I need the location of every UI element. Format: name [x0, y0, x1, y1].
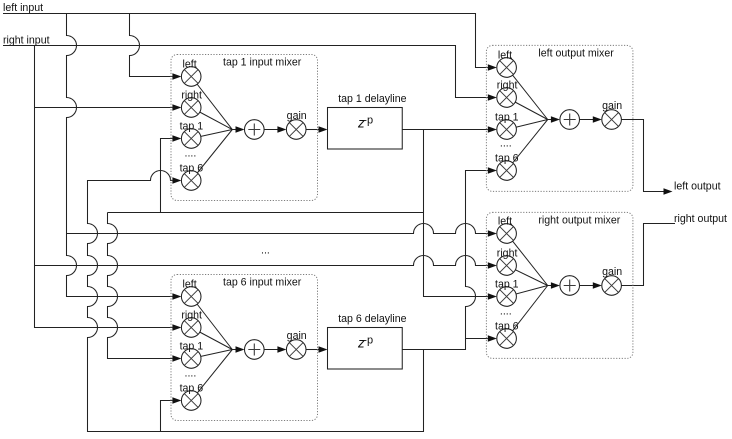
multiplier left (tap 1 input mixer): [181, 67, 201, 87]
arrowhead into gain left output mixer: [593, 116, 602, 123]
multiplier right (left output mixer): [497, 88, 517, 108]
arrowhead into adder left output mixer: [551, 116, 560, 123]
svg-text:....: ....: [500, 137, 512, 149]
wire right output wire: [621, 224, 675, 286]
multiplier tap 6 (tap 6 input mixer): [181, 391, 201, 411]
mixer box tap 1 input mixer: [171, 55, 318, 201]
adder sum (right output mixer): [560, 276, 580, 296]
svg-text:gain: gain: [602, 266, 622, 278]
arrowhead into right (tap 1 input mixer): [172, 104, 181, 111]
svg-text:tap 6 delayline: tap 6 delayline: [338, 313, 406, 325]
svg-text:....: ....: [185, 147, 197, 159]
multiplier gain (left output mixer): [602, 110, 622, 130]
wire tap 6 feedback to tap 6 input mixer: [161, 401, 173, 432]
svg-text:tap 1: tap 1: [180, 121, 204, 133]
svg-text:tap 1: tap 1: [180, 341, 204, 353]
svg-text:right output mixer: right output mixer: [538, 215, 620, 227]
svg-text:left output: left output: [674, 181, 721, 193]
svg-text:tap 6: tap 6: [495, 321, 519, 333]
svg-text:tap 1: tap 1: [495, 112, 519, 124]
wire tap 1 delayline output: [402, 129, 488, 131]
delayline box tap 6 delayline: [328, 328, 403, 370]
svg-text:right: right: [181, 90, 202, 102]
multiplier gain (tap 1 input mixer): [286, 120, 306, 140]
svg-text:left: left: [498, 216, 512, 228]
multiplier tap 1 (tap 6 input mixer): [181, 349, 201, 369]
arrowhead into tap 6 (left output mixer): [488, 167, 497, 174]
arrowhead into left (tap 1 input mixer): [172, 73, 181, 80]
arrowhead into tap 6 (right output mixer): [488, 335, 497, 342]
svg-text:-p: -p: [363, 115, 373, 127]
multiplier tap 6 (left output mixer): [497, 161, 517, 181]
arrowhead into left (right output mixer): [488, 230, 497, 237]
multiplier tap 1 (right output mixer): [497, 287, 517, 307]
arrowhead into left (tap 6 input mixer): [172, 293, 181, 300]
wire fan-in to adder of left output mixer: [507, 68, 594, 171]
svg-text:gain: gain: [287, 330, 307, 342]
svg-text:....: ....: [500, 305, 512, 317]
svg-text:tap 1 delayline: tap 1 delayline: [338, 93, 406, 105]
adder sum (left output mixer): [560, 110, 580, 130]
arrowhead left output: [664, 188, 673, 195]
wire right input to right output mixer: [35, 256, 488, 266]
mixer box tap 6 input mixer: [171, 275, 318, 421]
svg-text:tap 1 input mixer: tap 1 input mixer: [223, 57, 302, 69]
wire tap 6 mixer to delayline: [306, 349, 319, 351]
multiplier tap 1 (left output mixer): [497, 120, 517, 140]
wire tap 1 feedback bus: [108, 212, 424, 214]
arrowhead into tap 6 (tap 1 input mixer): [172, 177, 181, 184]
multiplier tap 1 (tap 1 input mixer): [181, 129, 201, 149]
wire tap 6 delay to right output mixer: [466, 338, 488, 340]
wire tap 1 delay to right output mixer: [424, 130, 488, 297]
wire fan-in to adder of tap 6 input mixer: [191, 297, 278, 401]
multiplier right (right output mixer): [497, 256, 517, 276]
wire right input trunk: [35, 46, 173, 328]
mixer box left output mixer: [486, 45, 633, 191]
arrowhead into adder tap 6 input mixer: [236, 346, 245, 353]
mixer box right output mixer: [486, 212, 633, 358]
delayline box tap 1 delayline: [328, 108, 403, 150]
svg-text:tap 6: tap 6: [180, 163, 204, 175]
multiplier left (tap 6 input mixer): [181, 287, 201, 307]
svg-text:....: ....: [185, 367, 197, 379]
svg-text:gain: gain: [602, 100, 622, 112]
arrowhead into tap 1 (left output mixer): [488, 126, 497, 133]
svg-text:right: right: [181, 310, 202, 322]
arrowhead into right (right output mixer): [488, 262, 497, 269]
wire left input to tap 1 input mixer: [130, 14, 173, 77]
arrowhead into gain tap 6 input mixer: [277, 346, 286, 353]
svg-text:gain: gain: [287, 110, 307, 122]
svg-text:left: left: [183, 59, 197, 71]
adder sum (tap 1 input mixer): [245, 120, 265, 140]
wire left input to right output mixer: [67, 224, 488, 234]
arrowhead into tap 6 (tap 6 input mixer): [172, 397, 181, 404]
multiplier right (tap 6 input mixer): [181, 318, 201, 338]
svg-text:left: left: [498, 50, 512, 62]
arrowhead into adder right output mixer: [551, 282, 560, 289]
svg-text:tap 1: tap 1: [495, 279, 519, 291]
arrowhead into gain tap 1 input mixer: [277, 126, 286, 133]
svg-text:left: left: [183, 279, 197, 291]
arrowhead into tap 1 (tap 6 input mixer): [172, 355, 181, 362]
wire left input to tap 6 input mixer: [67, 14, 173, 297]
multiplier left (right output mixer): [497, 224, 517, 244]
svg-text:right: right: [497, 80, 518, 92]
arrowhead into right (left output mixer): [488, 94, 497, 101]
arrowhead into gain right output mixer: [593, 282, 602, 289]
wire tap 1 mixer to delayline: [306, 129, 319, 131]
arrowhead into tap 6 delayline: [319, 346, 328, 353]
wire left input bus: [3, 14, 488, 68]
arrowhead into adder tap 1 input mixer: [236, 126, 245, 133]
arrowhead into tap 1 delayline: [319, 126, 328, 133]
wire right input to tap 1 input mixer: [35, 107, 173, 109]
wire fan-in to adder of tap 1 input mixer: [191, 77, 278, 181]
arrowhead into right (tap 6 input mixer): [172, 324, 181, 331]
svg-text:left output mixer: left output mixer: [538, 48, 614, 60]
svg-text:left input: left input: [3, 2, 43, 14]
multiplier gain (tap 6 input mixer): [286, 340, 306, 360]
wire tap 1 feedback to tap 6 input mixer: [108, 213, 173, 359]
adder sum (tap 6 input mixer): [245, 340, 265, 360]
svg-text:...: ...: [261, 245, 270, 257]
wire tap 1 feedback to tap 1 input mixer: [161, 139, 173, 213]
wire tap 6 feedback bus: [88, 171, 424, 432]
arrowhead into left (left output mixer): [488, 64, 497, 71]
svg-text:right input: right input: [3, 34, 50, 46]
multiplier left (left output mixer): [497, 58, 517, 78]
wire right input bus: [3, 46, 488, 98]
svg-text:-p: -p: [363, 335, 373, 347]
wire fan-in to adder of right output mixer: [507, 234, 594, 339]
svg-text:right: right: [497, 248, 518, 260]
svg-text:right output: right output: [674, 213, 727, 225]
wire left output wire: [621, 120, 663, 192]
svg-text:tap 6 input mixer: tap 6 input mixer: [223, 277, 302, 289]
svg-text:tap 6: tap 6: [180, 383, 204, 395]
arrowhead into tap 1 (right output mixer): [488, 293, 497, 300]
svg-text:tap 6: tap 6: [495, 153, 519, 165]
multiplier tap 6 (right output mixer): [497, 329, 517, 349]
arrowhead into tap 1 (tap 1 input mixer): [172, 135, 181, 142]
multiplier gain (right output mixer): [602, 276, 622, 296]
wire tap 6 delayline output: [402, 171, 488, 350]
multiplier tap 6 (tap 1 input mixer): [181, 171, 201, 191]
multiplier right (tap 1 input mixer): [181, 98, 201, 118]
